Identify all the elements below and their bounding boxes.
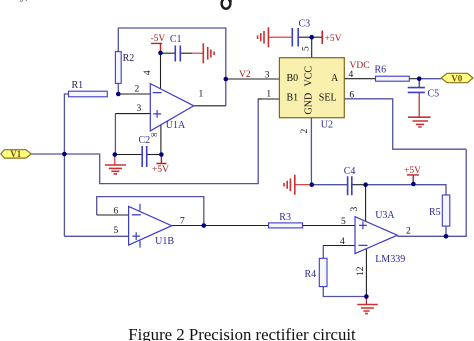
wire black: C1 left lead xyxy=(161,52,176,54)
wire black: C2 right lead xyxy=(147,154,162,156)
wire black: U1B pin6 xyxy=(97,214,129,216)
svg-text:3: 3 xyxy=(265,71,270,81)
junction node: R5/output xyxy=(444,234,449,239)
wire: C4 right to +5V corner and R5 xyxy=(366,185,446,195)
wire black: U1A V+ supply xyxy=(160,125,162,154)
wire black: R3 to U3A pin5 xyxy=(303,225,355,227)
svg-text:6: 6 xyxy=(349,91,354,101)
svg-text:+5V: +5V xyxy=(404,166,421,176)
svg-text:7: 7 xyxy=(180,217,185,227)
svg-text:4: 4 xyxy=(143,70,153,75)
svg-text:1: 1 xyxy=(199,89,204,99)
svg-text:GND: GND xyxy=(304,93,315,115)
wire black: U2 VCC pin5 xyxy=(311,37,313,58)
svg-text:6: 6 xyxy=(114,207,119,217)
svg-text:R6: R6 xyxy=(375,64,387,75)
capacitor C5 xyxy=(408,88,439,100)
capacitor C4 xyxy=(344,166,356,195)
wire black: U1A pin2 xyxy=(118,93,150,95)
wire: C4 left connection from ground node xyxy=(312,184,348,186)
chip U2 xyxy=(279,58,344,131)
resistor R5 xyxy=(429,195,450,226)
wire black: C1 right lead xyxy=(180,52,192,54)
resistor R6 xyxy=(375,64,410,81)
op-amp U1B xyxy=(129,204,175,248)
svg-text:VDC: VDC xyxy=(350,61,370,71)
port V1 xyxy=(1,149,32,159)
wire black: U2 pin A to R6 xyxy=(344,78,375,80)
junction node: C3/+5V xyxy=(309,35,314,40)
wire: R6 to V0 xyxy=(419,78,441,80)
wire: R2 bottom to pin2 node xyxy=(117,83,119,94)
junction node: R2/R1/pin2 xyxy=(116,92,121,97)
junction node: -5V/C1 xyxy=(158,51,163,56)
wire: U2 GND pin down to C4 node xyxy=(310,118,312,185)
op-amp U1A xyxy=(150,84,194,131)
svg-text:5: 5 xyxy=(341,217,346,227)
svg-text:-5V: -5V xyxy=(151,34,166,44)
svg-text:+5V: +5V xyxy=(152,165,169,175)
wire: R4 bottom to ground node xyxy=(323,287,366,297)
svg-text:R2: R2 xyxy=(123,53,135,64)
comparator U3A xyxy=(355,210,405,265)
svg-text:∞: ∞ xyxy=(151,131,158,141)
resistor R3 xyxy=(269,212,303,228)
svg-text:3: 3 xyxy=(350,207,360,212)
junction node: U1B output xyxy=(202,223,207,228)
svg-text:VCC: VCC xyxy=(304,66,315,87)
wire black: B1 stub xyxy=(258,98,279,100)
capacitor C3 xyxy=(292,19,310,47)
wire: R2 top to feedback loop and down to U1A output xyxy=(118,28,226,106)
port V0 xyxy=(441,73,473,83)
wire: U1B plus input from V1 rail xyxy=(64,235,128,237)
svg-text:B1: B1 xyxy=(287,92,299,103)
capacitor C2 xyxy=(139,131,158,168)
svg-text:C1: C1 xyxy=(170,34,182,45)
capacitor C1 xyxy=(170,34,182,62)
wire: R1 left corner xyxy=(64,94,68,236)
svg-text:V0: V0 xyxy=(451,73,462,83)
junction node: R6/C5 xyxy=(417,76,422,81)
svg-text:U1A: U1A xyxy=(166,120,186,131)
svg-text:2: 2 xyxy=(300,129,310,134)
svg-text:5: 5 xyxy=(302,46,312,51)
wire black: U1A pin4 supply xyxy=(160,53,162,90)
svg-text:1: 1 xyxy=(266,90,271,100)
cropped text fragment top-middle (descender of g) xyxy=(222,0,231,9)
svg-text:SEL: SEL xyxy=(319,92,337,103)
power +5V port (near C3) xyxy=(322,31,341,45)
svg-text:V2: V2 xyxy=(239,70,251,80)
svg-text:4: 4 xyxy=(340,237,345,247)
junction node: +5V line xyxy=(411,182,416,187)
power +5V port (near C2) xyxy=(152,155,169,176)
wire black: C3 right lead to +5V xyxy=(298,36,321,38)
svg-text:R1: R1 xyxy=(72,80,84,91)
wire black: C4 right lead xyxy=(352,184,366,186)
ground (earth, below C5) xyxy=(408,92,431,127)
wire black: V2 node to B0 xyxy=(226,78,280,80)
svg-text:C3: C3 xyxy=(299,19,311,30)
svg-text:C5: C5 xyxy=(428,89,440,100)
wire black: U3A pin12 xyxy=(365,249,367,297)
svg-text:U1B: U1B xyxy=(155,236,174,247)
junction node: R4/pin12 ground xyxy=(364,294,369,299)
wire black: U3A pin3 riser xyxy=(365,185,367,222)
ground (earth, below U3A pin12) xyxy=(357,297,378,314)
wire black: U1B output to R3 xyxy=(172,225,269,227)
ground (sideways, left of C4) xyxy=(284,175,312,195)
svg-text:2: 2 xyxy=(406,227,411,237)
svg-text:4: 4 xyxy=(349,70,354,80)
svg-text:U2: U2 xyxy=(321,120,333,131)
ground (sideways, right of C1) xyxy=(192,43,214,63)
wire: pin3 vertical to ground node xyxy=(114,114,116,155)
svg-text:5: 5 xyxy=(114,226,119,236)
svg-text:y,: y, xyxy=(20,0,28,2)
wire: V1 to right and down to B1 route xyxy=(31,99,262,184)
resistor R2 xyxy=(115,52,134,84)
power +5V port (near C4/R5) xyxy=(404,166,421,184)
wire: U1B feedback loop xyxy=(97,197,204,226)
junction node: V2 xyxy=(224,77,229,82)
wire black: U3A pin4 xyxy=(323,245,355,247)
junction node: U2 GND/C4 xyxy=(310,182,315,187)
junction node: C4/pin3 xyxy=(363,182,368,187)
svg-text:Figure 2 Precision rectifier c: Figure 2 Precision rectifier circuit xyxy=(128,325,356,341)
svg-text:12: 12 xyxy=(356,266,366,276)
svg-text:+5V: +5V xyxy=(325,34,342,44)
junction node: ground/C2 left xyxy=(113,152,118,157)
resistor R4 xyxy=(305,258,328,286)
resistor R1 xyxy=(69,80,108,97)
wire black: R6 right lead xyxy=(409,78,419,80)
wire: U3A output to SEL riser xyxy=(397,149,466,236)
svg-text:B0: B0 xyxy=(287,73,299,84)
svg-text:V1: V1 xyxy=(10,149,21,159)
wire: R4 top lead xyxy=(322,246,324,259)
wire: R5 bottom to output line xyxy=(445,226,447,236)
svg-text:R3: R3 xyxy=(279,212,291,223)
svg-text:U3A: U3A xyxy=(375,210,395,221)
wire black: U1A pin3 xyxy=(115,113,150,115)
junction node: V1 rail xyxy=(62,152,67,157)
svg-text:2: 2 xyxy=(135,84,140,94)
svg-text:C4: C4 xyxy=(344,166,356,177)
ground (earth, below pin3 node) xyxy=(105,155,126,174)
wire black: C5 top lead xyxy=(418,79,420,88)
ground (sideways, left of C3) xyxy=(258,27,293,47)
svg-text:LM339: LM339 xyxy=(375,254,405,265)
svg-text:3: 3 xyxy=(137,104,142,114)
svg-text:C2: C2 xyxy=(139,135,151,146)
wire: SEL route from U2 xyxy=(344,99,466,149)
wire black: U1A output pin1 xyxy=(194,105,226,107)
junction node: +5V/C2 right xyxy=(159,152,164,157)
power -5V port xyxy=(151,34,166,53)
svg-text:R5: R5 xyxy=(429,207,441,218)
svg-text:A: A xyxy=(331,73,339,84)
wire black: C2 left lead xyxy=(115,154,142,156)
svg-text:R4: R4 xyxy=(305,269,317,280)
